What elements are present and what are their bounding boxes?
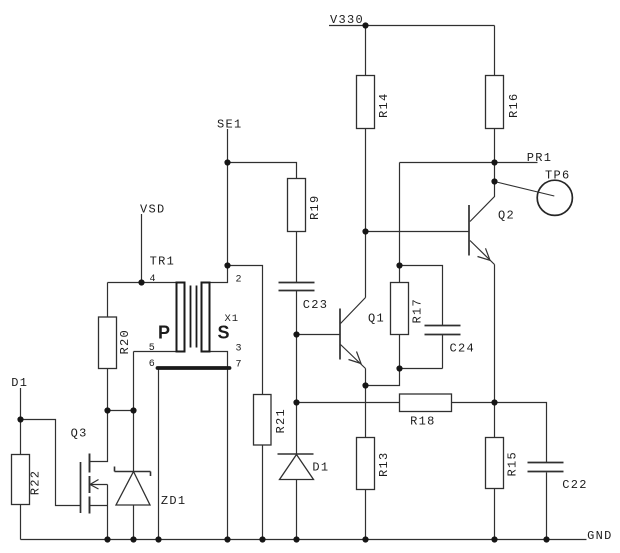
svg-text:ZD1: ZD1 <box>161 494 187 508</box>
svg-text:Q3: Q3 <box>71 427 88 441</box>
svg-text:S: S <box>218 323 230 343</box>
svg-text:VSD: VSD <box>140 203 166 217</box>
svg-text:C24: C24 <box>450 342 476 356</box>
svg-text:5: 5 <box>149 343 156 354</box>
svg-text:P: P <box>158 323 170 343</box>
svg-text:GND: GND <box>587 529 613 543</box>
svg-text:D1: D1 <box>312 461 329 475</box>
svg-text:C23: C23 <box>303 298 329 312</box>
svg-text:Q2: Q2 <box>498 209 515 223</box>
svg-text:4: 4 <box>150 274 157 285</box>
svg-text:R18: R18 <box>410 415 436 429</box>
svg-text:TP6: TP6 <box>545 169 571 183</box>
svg-text:2: 2 <box>236 275 243 286</box>
svg-text:R13: R13 <box>377 451 391 477</box>
svg-text:R19: R19 <box>308 194 322 220</box>
svg-text:Q1: Q1 <box>368 312 385 326</box>
svg-text:R14: R14 <box>377 92 391 118</box>
svg-text:TR1: TR1 <box>150 255 176 269</box>
svg-text:R22: R22 <box>29 470 43 496</box>
svg-text:V330: V330 <box>330 13 364 27</box>
svg-text:6: 6 <box>149 359 156 370</box>
svg-text:C22: C22 <box>562 478 588 492</box>
svg-text:PR1: PR1 <box>527 151 553 165</box>
svg-text:D1: D1 <box>11 376 28 390</box>
svg-text:7: 7 <box>236 360 243 371</box>
svg-text:R15: R15 <box>506 451 520 477</box>
svg-text:R21: R21 <box>274 408 288 434</box>
svg-text:SE1: SE1 <box>217 118 243 132</box>
svg-text:3: 3 <box>236 343 243 354</box>
svg-text:R17: R17 <box>411 298 425 324</box>
svg-text:R16: R16 <box>507 92 521 118</box>
svg-text:R20: R20 <box>118 329 132 355</box>
